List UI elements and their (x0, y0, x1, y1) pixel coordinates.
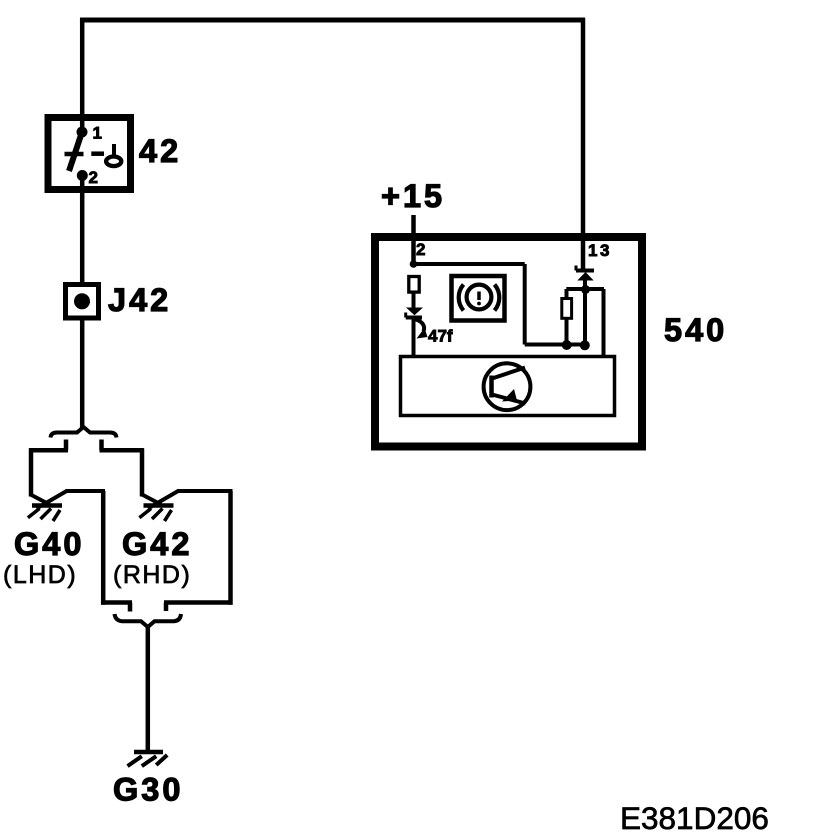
wire bottom-left stub (128, 603, 133, 612)
fuse F on pin2 branch (409, 277, 419, 293)
upper variant brace (51, 427, 117, 438)
wire diode to junction (583, 280, 587, 290)
wire right vertical down (228, 491, 233, 605)
switch 42 circle contact stem (112, 144, 116, 157)
svg-text:13: 13 (588, 241, 612, 260)
node center bottom (580, 340, 590, 350)
switch 42 box (48, 118, 131, 190)
wire G40 continuation horizontal (66, 489, 105, 493)
diode 47f (406, 308, 423, 316)
transistor emitter (492, 395, 526, 404)
wire RHD horizontal (100, 448, 144, 453)
wire J42 to split brace (80, 318, 85, 428)
svg-text:G42: G42 (122, 526, 192, 562)
wire diode center vertical (583, 290, 587, 345)
wire right vertical from top to unit 540 pin 13 (581, 18, 586, 270)
transistor emitter arrow (502, 389, 517, 402)
switch 42 circle contact (106, 157, 121, 167)
svg-text:540: 540 (664, 312, 727, 348)
wire diode to output block (412, 318, 416, 357)
wire top horizontal (80, 18, 585, 23)
ground G30 symbol (128, 752, 168, 766)
lower variant brace (115, 614, 182, 627)
svg-text:J42: J42 (108, 282, 171, 318)
wire right stub under brace (99, 440, 104, 451)
node resistor bottom (562, 340, 572, 350)
connector J42 dot (74, 293, 90, 309)
wire bottom-right stub (164, 603, 169, 612)
ground G40 splice symbol (28, 491, 68, 522)
svg-text:G40: G40 (14, 526, 84, 562)
svg-text:+15: +15 (381, 178, 445, 214)
svg-text:G30: G30 (113, 772, 183, 808)
node diode junction (581, 285, 590, 294)
ground G42 splice symbol (139, 491, 179, 522)
wire right branch vertical (523, 264, 527, 345)
wire LHD vertical down to G40 (29, 449, 34, 497)
svg-text:47f: 47f (428, 327, 453, 346)
switch 42 top contact dot (pin 1) (77, 127, 88, 138)
svg-text:(RHD): (RHD) (113, 561, 191, 589)
svg-text:1: 1 (93, 124, 102, 143)
lamp exclamation (477, 292, 481, 301)
wire left vertical from top to switch 42 (80, 18, 85, 131)
wire right parallel branch down to output block (602, 289, 606, 356)
wire left branch to resistor (565, 289, 569, 299)
wire +15 down into unit (411, 215, 416, 266)
lamp left arc (459, 285, 464, 311)
lamp right arc (495, 285, 500, 311)
svg-text:E381D206: E381D206 (620, 800, 769, 836)
node pin2 junction (410, 260, 418, 268)
diode D at pin 13 (576, 269, 594, 273)
lamp indicator box (452, 276, 505, 321)
wire fuse to diode (412, 293, 416, 308)
wire left stub under brace (64, 440, 69, 451)
lamp brake symbol circle (467, 285, 492, 310)
wire RHD vertical down to G42 (140, 449, 145, 497)
switch 42 lever crossbar (65, 152, 84, 157)
wire pin2 junction to right (414, 262, 525, 266)
transistor base bar (489, 376, 494, 398)
svg-text:2: 2 (416, 240, 425, 259)
connector J42 box (66, 285, 99, 319)
unit 540 outer box (375, 237, 642, 447)
wire middle vertical down (101, 491, 106, 605)
wire resistor to bottom node (565, 318, 569, 344)
wire G42 continuation horizontal (178, 489, 233, 493)
transistor Q circle (484, 363, 531, 410)
switch 42 lever (69, 132, 82, 171)
wire LHD horizontal (29, 448, 68, 453)
svg-text:(LHD): (LHD) (3, 561, 77, 589)
transistor collector (492, 368, 525, 379)
wire brace to G30 (146, 626, 151, 752)
wire bottom-right horizontal join (164, 600, 233, 605)
resistor R (562, 299, 572, 319)
wire bottom-left horizontal join (101, 600, 132, 605)
svg-text:2: 2 (89, 168, 98, 187)
wire resistor-top horizontal (566, 287, 604, 291)
switch 42 bottom contact dot (pin 2) (77, 170, 88, 181)
switch 42 linkage dash (91, 151, 104, 156)
diode 47f hook arrow (415, 319, 424, 332)
wire switch to J42 (80, 178, 85, 284)
wire bottom horizontal to resistor network (525, 343, 588, 347)
svg-text:42: 42 (139, 133, 181, 169)
output stage box (401, 357, 615, 416)
